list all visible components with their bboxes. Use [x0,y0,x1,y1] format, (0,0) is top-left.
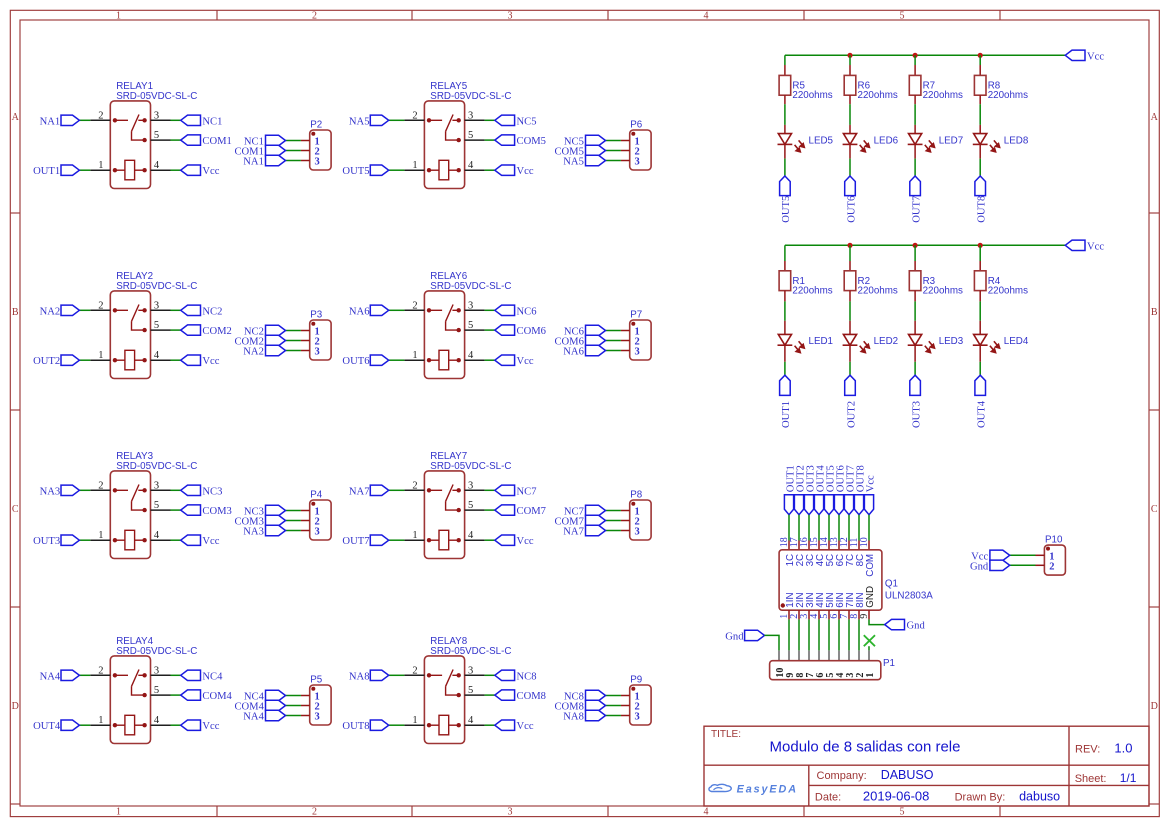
relay RELAY3 SRD-05VDC-SL-C [33,451,232,559]
svg-text:1: 1 [98,350,103,361]
LED5 emission arrows [795,140,805,151]
wire LED7 to OUT7 [914,159,916,176]
connector P10 [970,535,1065,576]
contact dot pin5 RELAY5 [457,138,461,142]
coil dot pin4 RELAY4 [142,723,146,727]
pin1 marker P7 [631,322,635,326]
wire RELAY3 to COM3 [171,509,181,511]
contact dot pin5 RELAY4 [142,693,146,697]
resistor R5 with LED5 column [778,55,834,223]
svg-text:9: 9 [859,614,870,619]
contact dot pin2 RELAY1 [113,118,117,122]
connector P2 [234,119,331,170]
relay contact common pin 2 internals RELAY6 [429,305,459,331]
relay contact common pin 2 internals RELAY4 [115,670,145,696]
pin1 marker P5 [311,687,315,691]
wire LED4 to OUT4 [979,362,981,375]
wire RELAY1 to NC1 [171,119,181,121]
wire X to P1 pin 1 [868,646,870,650]
wire R2 to LED2 [849,301,851,320]
contact dot pin2 RELAY2 [113,308,117,312]
svg-text:P8: P8 [630,489,643,500]
svg-text:OUT7: OUT7 [342,536,369,547]
wire RELAY8 to COM8 [485,694,495,696]
resistor R8 [974,75,986,95]
port NC8 (P9 side) [586,690,606,700]
svg-text:5: 5 [900,10,905,21]
port Vcc (RELAY5 side) [495,165,515,175]
cathode pin LED7 [914,144,916,158]
pin 3 RELAY2 [151,309,171,311]
svg-text:220ohms: 220ohms [988,90,1028,101]
pin1 marker P2 [311,132,315,136]
pin 1 P10 [1036,554,1045,556]
pin 2 Q1 [798,610,800,619]
wire NA7 to P8 pin 3 [606,530,621,532]
wire Gnd to P1 pin 10 [765,635,780,650]
svg-text:Sheet:: Sheet: [1075,773,1107,785]
cathode pin LED8 [979,144,981,158]
wire Q1 pin 2 to P1 [798,619,800,650]
svg-text:NA7: NA7 [563,527,584,538]
wire Q1 pin 1 to P1 [788,619,790,650]
junction on Vcc rail x=980.2 [978,53,983,58]
svg-text:D: D [12,701,19,712]
wire R7 to LED7 [914,104,916,125]
svg-text:NC8: NC8 [517,671,537,682]
relay contact common pin 2 internals RELAY8 [429,670,459,696]
svg-text:3: 3 [468,665,473,676]
pin 5 RELAY7 [465,509,485,511]
wire NC4 to P5 pin 1 [286,695,301,697]
pin 7 P1 [808,650,810,660]
port Vcc (P10 side) [990,550,1010,560]
svg-text:P1: P1 [883,658,895,669]
contact dot pin3 RELAY2 [142,308,146,312]
port OUT4 [61,720,79,730]
wire LED1 to OUT1 [784,362,786,375]
pin 1 Q1 [788,610,790,619]
relay RELAY4 SRD-05VDC-SL-C [33,636,232,744]
pin 3 Q1 [808,610,810,619]
svg-text:COM7: COM7 [517,506,546,517]
connector body P7 [630,320,651,360]
svg-text:Vcc: Vcc [1087,241,1104,252]
svg-text:OUT8: OUT8 [977,196,988,223]
svg-text:P9: P9 [630,674,642,685]
wire Q1 pin 8 to P1 [858,619,860,650]
coil dot pin4 RELAY5 [457,168,461,172]
pin 2 R1 [784,291,786,302]
svg-text:220ohms: 220ohms [792,90,832,101]
relay coil RELAY4 [125,715,135,735]
resistor R5 [779,75,791,95]
diode LED5 [778,134,793,145]
pin 4 RELAY4 [151,724,171,726]
LED3 emission arrows [925,341,935,352]
svg-text:P10: P10 [1045,535,1063,546]
relay body RELAY4 [110,656,150,744]
LED6 emission arrows [860,140,870,151]
wire OUT3 to RELAY3 pin1 [79,539,90,541]
connector body P6 [630,130,651,170]
wire rail to R4 [979,245,981,261]
svg-text:1: 1 [98,530,103,541]
svg-text:4: 4 [154,160,160,171]
svg-text:3: 3 [154,110,159,121]
pin 1 R8 [979,65,981,75]
port NA7 [370,485,388,495]
contact dot pin2 RELAY8 [427,673,431,677]
coil dot pin1 RELAY5 [427,168,431,172]
port Vcc (RELAY3 side) [181,535,201,545]
contact dot pin2 RELAY3 [113,488,117,492]
svg-text:4: 4 [468,530,474,541]
Vcc rail (LEDs 5-8) [785,54,1065,56]
port NC1 (P2 side) [266,135,286,145]
svg-text:1/1: 1/1 [1120,771,1137,785]
svg-text:P5: P5 [310,674,323,685]
port NA7 (P8 side) [586,525,606,535]
resistor R2 [844,271,856,291]
port NC5 (RELAY5 side) [495,115,515,125]
svg-text:5: 5 [900,807,905,818]
svg-text:1: 1 [865,673,876,678]
svg-text:Drawn By:: Drawn By: [955,791,1006,803]
port Vcc (RELAY7 side) [495,535,515,545]
pin numbers RELAY6 [412,300,474,361]
svg-text:LED6: LED6 [874,135,899,146]
wire LED5 to OUT5 [784,159,786,176]
wire rail to R3 [914,245,916,261]
pin 2 P4 [301,520,310,522]
svg-text:NC3: NC3 [202,486,222,497]
junction on Vcc rail x=850 [847,53,852,58]
wire RELAY8 to Vcc [485,724,495,726]
relay body RELAY5 [424,101,464,189]
svg-text:1.0: 1.0 [1114,741,1132,756]
wire COM2 to P3 pin 2 [286,340,301,342]
pin 1 R3 [914,261,916,271]
coil dot pin4 RELAY8 [457,723,461,727]
port NA4 [61,670,79,680]
svg-text:1: 1 [412,715,417,726]
pin 4 Q1 [818,610,820,619]
wire NC6 to P7 pin 1 [606,330,621,332]
svg-text:3: 3 [315,712,320,723]
port Vcc (rail) [1065,240,1085,250]
contact dot pin2 RELAY6 [427,308,431,312]
svg-text:4: 4 [468,715,474,726]
svg-text:COM: COM [865,554,876,577]
pin 2 RELAY2 [90,309,110,311]
pin 1 P7 [621,330,630,332]
pin 1 R2 [849,261,851,271]
pin 1 RELAY4 [90,724,110,726]
pin 8 Q1 [858,610,860,619]
pin 2 R3 [914,291,916,302]
port NA3 [61,485,79,495]
wire OUT7 to RELAY7 pin1 [389,539,405,541]
wire NA2 to RELAY2 pin2 [79,309,90,311]
resistor R8 with LED8 column [973,55,1029,223]
svg-text:COM2: COM2 [202,326,231,337]
svg-text:3: 3 [635,157,640,168]
anode pin LED6 [849,125,851,134]
pin 1 RELAY7 [404,539,424,541]
port COM7 (P8 side) [586,515,606,525]
junction on Vcc rail x=915.1 [913,243,918,248]
svg-text:3: 3 [635,527,640,538]
svg-text:Vcc: Vcc [202,356,219,367]
relay body RELAY6 [424,291,464,379]
resistor R3 [909,271,921,291]
pin numbers RELAY5 [412,110,474,171]
diode LED3 [908,334,923,345]
svg-text:5: 5 [468,685,473,696]
port OUT2 (Q1 top) [794,495,803,515]
pin 9 P1 [788,650,790,660]
svg-text:2: 2 [98,480,103,491]
LED1 emission arrows [795,341,805,352]
svg-text:NA1: NA1 [243,157,264,168]
svg-text:5: 5 [154,500,159,511]
diode LED8 [973,134,988,145]
wire COM1 to P2 pin 2 [286,150,301,152]
wire Q1 pin 3 to P1 [808,619,810,650]
svg-text:1: 1 [98,160,103,171]
port NC4 (P5 side) [266,690,286,700]
port NA2 [61,305,79,315]
wire RELAY5 to COM5 [485,139,495,141]
pin 1 P1 [868,650,870,660]
svg-text:OUT3: OUT3 [911,401,922,428]
svg-text:Vcc: Vcc [517,536,534,547]
port OUT6 (LED side) [845,176,856,196]
junction on Vcc rail x=850 [847,243,852,248]
port OUT4 (Q1 top) [814,495,823,515]
port NA6 [370,305,388,315]
pin 5 P1 [828,650,830,660]
wire COM5 to P6 pin 2 [606,150,621,152]
svg-text:Gnd: Gnd [907,621,926,632]
port COM5 (P6 side) [586,145,606,155]
port NC5 (P6 side) [586,135,606,145]
svg-text:TITLE:: TITLE: [711,729,741,740]
pin 1 P4 [301,510,310,512]
coil dot pin1 RELAY3 [113,538,117,542]
wire NA5 to P6 pin 3 [606,160,621,162]
svg-text:2: 2 [412,665,417,676]
wire rail to R1 [784,245,786,261]
relay body RELAY2 [110,291,150,379]
port NC4 (RELAY4 side) [181,670,201,680]
port Gnd (P10 side) [990,560,1010,570]
connector P5 [234,674,331,725]
coil dot pin4 RELAY1 [142,168,146,172]
pin 7 Q1 [848,610,850,619]
pin 2 R6 [849,95,851,104]
wire RELAY7 to COM7 [485,509,495,511]
title block [704,726,1149,806]
svg-text:LED8: LED8 [1004,135,1029,146]
port COM8 (RELAY8 side) [495,690,515,700]
svg-text:Vcc: Vcc [517,356,534,367]
port OUT5 (LED side) [780,176,791,196]
port OUT2 [61,355,79,365]
svg-text:220ohms: 220ohms [858,90,898,101]
ground port Gnd (right of Q1) [885,619,905,629]
svg-text:NA2: NA2 [40,306,61,317]
wire COM6 to P7 pin 2 [606,340,621,342]
relay RELAY5 SRD-05VDC-SL-C [342,81,546,189]
EasyEDA logo [709,783,798,795]
pin1 marker P10 [1046,547,1050,551]
wire R8 to LED8 [979,104,981,125]
svg-text:NC6: NC6 [517,306,537,317]
wire RELAY3 to Vcc [171,539,181,541]
svg-text:3: 3 [468,300,473,311]
svg-text:3: 3 [154,300,159,311]
relay RELAY1 SRD-05VDC-SL-C [33,81,232,189]
diode LED2 [843,334,858,345]
LED2 emission arrows [860,341,870,352]
pin 3 P1 [848,650,850,660]
wire NA2 to P3 pin 3 [286,350,301,352]
pin 1 RELAY1 [90,169,110,171]
wire rail to R6 [849,55,851,65]
svg-text:2: 2 [312,10,317,21]
port NA8 (P9 side) [586,710,606,720]
wire RELAY7 to NC7 [485,489,495,491]
pin 1 R7 [914,65,916,75]
relay RELAY8 SRD-05VDC-SL-C [342,636,546,744]
pin 10 Q1 [868,541,870,550]
svg-text:NC2: NC2 [202,306,222,317]
wire R4 to LED4 [979,301,981,320]
wire Q1 pin 9 to Gnd [869,619,885,624]
svg-text:A: A [12,112,20,123]
svg-text:3: 3 [315,157,320,168]
wire NC7 to P8 pin 1 [606,510,621,512]
svg-text:OUT4: OUT4 [33,721,61,732]
wire RELAY3 to NC3 [171,489,181,491]
pin 2 RELAY5 [404,119,424,121]
contact dot pin3 RELAY3 [142,488,146,492]
pin 2 P10 [1036,564,1045,566]
pin 2 RELAY8 [404,674,424,676]
pin 2 P5 [301,705,310,707]
contact dot pin3 RELAY7 [457,488,461,492]
svg-text:OUT6: OUT6 [342,356,369,367]
contact dot pin5 RELAY7 [457,508,461,512]
svg-text:220ohms: 220ohms [923,285,963,296]
relay contact common pin 2 internals RELAY2 [115,305,145,331]
svg-text:3: 3 [468,480,473,491]
port NA2 (P3 side) [266,345,286,355]
diode LED6 [843,134,858,145]
coil dot pin4 RELAY6 [457,358,461,362]
svg-text:P2: P2 [310,119,322,130]
pin 5 RELAY3 [151,509,171,511]
wire NC8 to P9 pin 1 [606,695,621,697]
port COM6 (RELAY6 side) [495,325,515,335]
pin 3 P9 [621,715,630,717]
wire OUT2 to RELAY2 pin1 [79,359,90,361]
pin 17 Q1 [798,541,800,550]
coil dot pin1 RELAY1 [113,168,117,172]
svg-text:GND: GND [865,586,876,608]
anode pin LED5 [784,125,786,134]
wire Q1 pin 7 to P1 [848,619,850,650]
pin 2 RELAY6 [404,309,424,311]
svg-text:B: B [12,307,19,318]
svg-text:Vcc: Vcc [1087,51,1104,62]
Vcc rail (LEDs 1-4) [785,244,1065,246]
svg-text:A: A [1151,112,1159,123]
port COM5 (RELAY5 side) [495,135,515,145]
relay body RELAY3 [110,471,150,559]
relay contact common pin 2 internals RELAY5 [429,115,459,141]
pin 3 P2 [301,160,310,162]
svg-text:4: 4 [468,160,474,171]
wire NA8 to P9 pin 3 [606,715,621,717]
svg-text:Gnd: Gnd [725,631,744,642]
pin 1 RELAY6 [404,359,424,361]
svg-text:OUT5: OUT5 [781,196,792,223]
pin 1 P5 [301,695,310,697]
wire rail to R8 [979,55,981,65]
pin1 marker P9 [631,687,635,691]
wire LED6 to OUT6 [849,159,851,176]
port OUT6 [370,355,388,365]
anode pin LED1 [784,321,786,335]
wire RELAY6 to NC6 [485,309,495,311]
cathode pin LED5 [784,144,786,158]
port Vcc (RELAY1 side) [181,165,201,175]
wire RELAY4 to Vcc [171,724,181,726]
svg-text:Vcc: Vcc [202,721,219,732]
wire Q1 pin 6 to P1 [838,619,840,650]
resistor R7 [909,75,921,95]
pin 3 P4 [301,530,310,532]
svg-text:1: 1 [412,350,417,361]
svg-text:NA5: NA5 [349,116,370,127]
connector body P1 [770,661,881,680]
cathode pin LED1 [784,345,786,362]
svg-text:DABUSO: DABUSO [881,768,934,782]
pin 2 R4 [979,291,981,302]
svg-text:NA5: NA5 [563,157,584,168]
pin 4 RELAY5 [465,169,485,171]
port OUT4 (LED side) [975,375,986,395]
wire RELAY1 to COM1 [171,139,181,141]
svg-text:P4: P4 [310,489,323,500]
wire NC2 to P3 pin 1 [286,330,301,332]
coil dot pin4 RELAY3 [142,538,146,542]
relay coil RELAY5 [439,160,449,180]
port NA4 (P5 side) [266,710,286,720]
coil dot pin1 RELAY2 [113,358,117,362]
connector body P4 [310,500,331,540]
wire RELAY4 to NC4 [171,674,181,676]
svg-text:OUT2: OUT2 [846,401,857,428]
pin 4 RELAY8 [465,724,485,726]
junction on Vcc rail x=915.1 [913,53,918,58]
relay coil RELAY1 [125,160,135,180]
port NA5 (P6 side) [586,155,606,165]
svg-text:OUT7: OUT7 [911,196,922,223]
